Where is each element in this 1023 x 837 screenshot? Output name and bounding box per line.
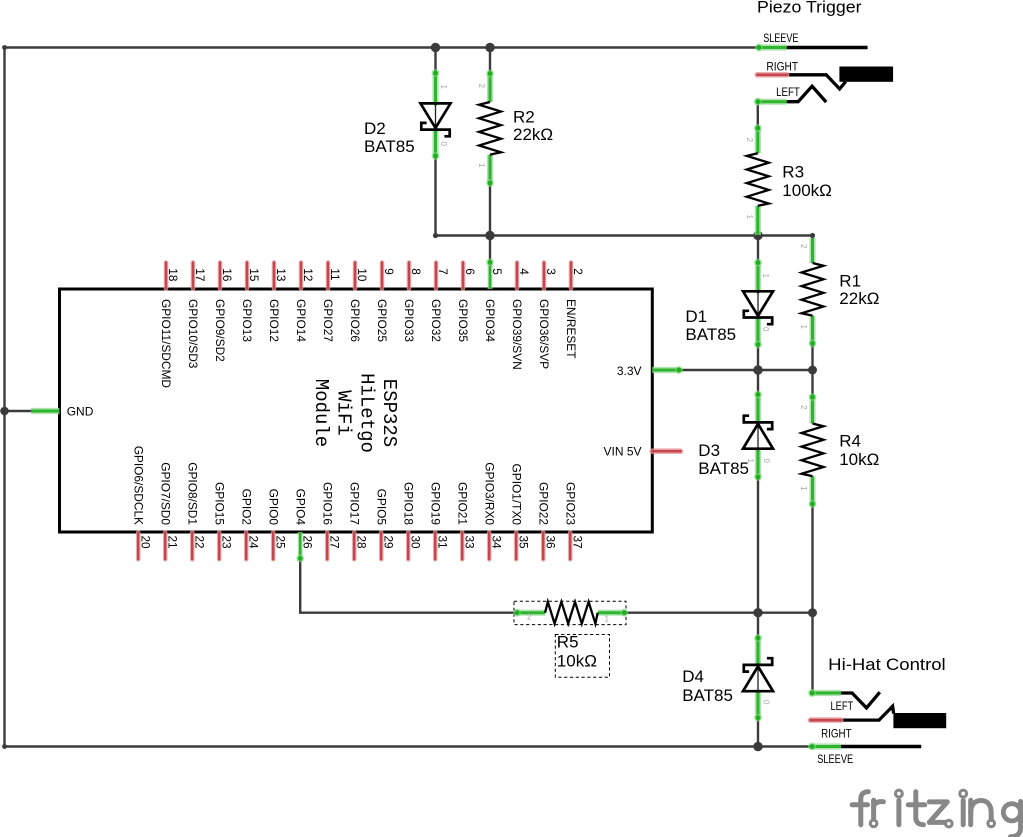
pin U1-37 GPIO23 stub [568,533,573,560]
pin R3 1 [755,206,761,235]
pin R5 1 [598,609,628,617]
svg-text:Piezo Trigger: Piezo Trigger [757,0,862,16]
svg-text:R2: R2 [513,107,535,126]
svg-text:34: 34 [489,536,503,550]
wire D3 top [757,370,759,396]
pin D2 cathode (0) [432,128,440,160]
jack J1 sleeve lead [787,46,868,49]
pin D1 anode (1) [754,259,762,294]
svg-text:23: 23 [219,536,233,550]
pin D3 anode [754,448,762,481]
svg-text:GPIO6/SDCLK: GPIO6/SDCLK [131,446,145,525]
svg-text:D4: D4 [682,667,704,686]
pin U1 3.3V stub [652,366,683,374]
svg-text:GPIO0: GPIO0 [266,489,280,526]
pin U1 VIN5V stub [652,448,680,454]
svg-text:2: 2 [527,613,532,622]
svg-text:GPIO8/SD1: GPIO8/SD1 [185,462,199,525]
wire D4 top [757,613,759,638]
wire R4 bottom [811,504,813,614]
svg-text:30: 30 [408,536,422,550]
wire left rail [3,46,5,747]
svg-text:0: 0 [439,142,448,147]
pin D4 anode [754,689,762,721]
svg-text:BAT85: BAT85 [682,686,733,705]
svg-text:GPIO13: GPIO13 [240,299,254,342]
jack J2 ring contact [841,706,894,720]
jack J2 sleeve lead [841,745,922,748]
svg-text:27: 27 [327,536,341,549]
node R3-D1/middle rail [753,231,762,240]
svg-text:GPIO7/SD0: GPIO7/SD0 [158,462,172,525]
svg-text:D2: D2 [364,119,386,138]
pin R1 1 [809,316,817,348]
pin U1-35 GPIO1/TX0 stub [514,533,519,560]
pin R5 2 [513,609,545,617]
diode D3 BAT85 symbol [743,416,773,450]
svg-text:0: 0 [762,700,771,705]
resistor R2 zigzag [479,102,501,155]
pin R4 2 [809,393,817,423]
node D4/bottom rail [753,742,762,751]
svg-text:GPIO39/SVN: GPIO39/SVN [510,299,524,370]
svg-text:1: 1 [799,486,808,491]
resistor R3 zigzag [747,153,769,206]
diode D4 BAT85 symbol [743,658,773,692]
svg-text:D1: D1 [685,307,707,326]
node R2-GPIO34/middle rail [485,231,494,240]
svg-text:SLEEVE: SLEEVE [817,754,853,766]
svg-text:2: 2 [477,84,486,89]
jack J2 body [893,713,946,728]
svg-text:1: 1 [746,459,755,464]
svg-text:0: 0 [762,459,771,464]
wire D2 top [434,48,436,76]
pin J1 RIGHT [757,72,786,78]
wire D1 bottom [757,344,759,371]
wire GPIO34 to middle rail [489,236,491,264]
pin U1-13 GPIO12 stub [272,263,277,289]
svg-text:ESP32S: ESP32S [378,379,400,447]
wire R5 to junctions [625,612,814,614]
svg-text:GPIO22: GPIO22 [536,482,550,525]
svg-text:LEFT: LEFT [831,701,854,713]
svg-text:Hi-Hat Control: Hi-Hat Control [828,655,946,674]
svg-text:GPIO14: GPIO14 [294,299,308,342]
svg-text:BAT85: BAT85 [698,459,749,478]
diode D2 BAT85 symbol [421,103,451,136]
svg-text:21: 21 [165,536,179,549]
pin U1-12 GPIO14 stub [299,263,304,289]
svg-text:GPIO27: GPIO27 [321,299,335,342]
resistor R1 zigzag [802,263,824,316]
svg-text:2: 2 [745,138,754,143]
svg-text:GPIO36/SVP: GPIO36/SVP [537,299,551,369]
svg-text:7: 7 [436,268,450,275]
svg-text:2: 2 [799,244,808,249]
svg-text:BAT85: BAT85 [364,137,415,156]
resistor R5 zigzag [545,602,598,624]
wire D2 bottom [434,155,436,237]
svg-text:10kΩ: 10kΩ [839,450,879,469]
svg-text:15: 15 [247,268,261,282]
pin U1-31 GPIO19 stub [433,533,438,560]
selection box R5 label [555,635,609,678]
wire D4 bottom [757,717,759,747]
wire GND stub [5,410,32,412]
svg-text:100kΩ: 100kΩ [782,181,832,200]
pin U1-15 GPIO13 stub [245,263,250,289]
svg-text:GPIO16: GPIO16 [320,482,334,525]
svg-text:20: 20 [138,536,152,550]
node D3-D4/R5 rail [753,608,762,617]
svg-text:17: 17 [193,268,207,281]
wire D1 top [757,236,759,264]
svg-text:1: 1 [477,163,486,168]
svg-text:GPIO15: GPIO15 [212,482,226,525]
pin U1-10 GPIO26 stub [353,263,358,289]
svg-text:GPIO25: GPIO25 [375,299,389,342]
svg-text:22: 22 [192,536,206,549]
pin J2 RIGHT [811,717,841,723]
wire middle rail [435,234,814,236]
svg-text:2: 2 [799,405,808,410]
svg-text:26: 26 [300,536,314,550]
svg-text:2: 2 [571,268,585,275]
jack J1 tip contact [787,86,827,102]
svg-text:GPIO32: GPIO32 [429,299,443,342]
svg-text:6: 6 [463,268,477,275]
svg-text:BAT85: BAT85 [685,325,736,344]
svg-text:GPIO3/RX0: GPIO3/RX0 [482,462,496,525]
pin R4 1 [809,476,817,508]
pin J2 LEFT [808,689,841,697]
wire R2 top [489,48,491,76]
svg-text:28: 28 [354,536,368,550]
svg-text:RIGHT: RIGHT [821,728,852,740]
svg-text:GPIO11/SDCMD: GPIO11/SDCMD [159,299,173,388]
svg-text:GPIO21: GPIO21 [455,482,469,525]
pin U1-17 GPIO10/SD3 stub [191,263,196,289]
svg-text:1: 1 [605,615,610,624]
wire bottom rail [5,745,812,747]
svg-text:HiLetgo: HiLetgo [355,373,377,453]
svg-text:GPIO12: GPIO12 [267,299,281,342]
pin U1-3 GPIO36/SVP stub [542,263,547,289]
pin U1-22 GPIO8/SD1 stub [190,533,195,560]
wire GPIO4 to R5 [300,558,518,613]
svg-text:GPIO5: GPIO5 [374,489,388,526]
svg-text:37: 37 [570,536,584,549]
svg-text:18: 18 [166,268,180,282]
svg-text:WiFi: WiFi [333,390,355,436]
svg-text:GPIO9/SD2: GPIO9/SD2 [213,299,227,362]
svg-text:R4: R4 [839,432,861,451]
wire Piezo LEFT to R3 [757,102,759,129]
svg-text:9: 9 [382,268,396,275]
svg-text:3: 3 [544,268,558,275]
node R4-HiHat/R5 rail [808,608,817,617]
resistor R4 zigzag [802,424,824,477]
svg-text:3.3V: 3.3V [617,364,642,378]
svg-text:25: 25 [273,536,287,550]
svg-text:8: 8 [409,268,423,275]
node R2/top rail [485,43,494,52]
svg-text:31: 31 [435,536,449,549]
pin R3 2 [754,124,762,153]
jack J1 body [839,67,893,82]
svg-text:1: 1 [761,274,770,279]
pin U1-18 GPIO11/SDCMD stub [164,263,169,289]
svg-text:1: 1 [799,325,808,330]
fritzing logo [852,790,1020,837]
node GND junction [0,407,9,416]
svg-text:Module: Module [310,379,332,447]
svg-text:29: 29 [381,536,395,549]
svg-text:0: 0 [761,327,770,332]
wire D3 bottom [757,477,759,614]
pin U1-21 GPIO7/SD0 stub [163,533,168,560]
svg-text:GPIO23: GPIO23 [563,482,577,525]
pin D4 cathode [754,634,762,666]
wire top rail [5,46,761,48]
node R1-R4/3.3V rail [808,366,817,375]
svg-text:1: 1 [439,85,448,90]
pin U1-27 GPIO16 stub [325,533,330,560]
svg-text:SLEEVE: SLEEVE [763,33,798,45]
pin U1-9 GPIO25 stub [380,263,385,289]
svg-text:GPIO1/TX0: GPIO1/TX0 [509,464,523,526]
svg-text:11: 11 [328,268,342,280]
svg-text:GPIO2: GPIO2 [239,489,253,526]
ESP32 module body U1 [60,289,653,532]
pin U1-26 GPIO4 stub [296,532,304,562]
pin J1 SLEEVE [755,44,787,52]
svg-text:GPIO10/SD3: GPIO10/SD3 [186,299,200,369]
jack J2 tip contact [841,692,880,708]
pin U1-11 GPIO27 stub [326,263,331,289]
svg-text:R1: R1 [839,271,861,290]
svg-text:GPIO19: GPIO19 [428,482,442,525]
pin U1-20 GPIO6/SDCLK stub [136,533,141,560]
pin U1-34 GPIO3/RX0 stub [487,533,492,560]
pin U1-30 GPIO18 stub [406,533,411,560]
svg-text:24: 24 [246,536,260,550]
node D2/top rail [431,43,440,52]
pin U1-23 GPIO15 stub [217,533,222,560]
svg-text:35: 35 [516,536,530,550]
svg-text:10: 10 [355,268,369,282]
svg-text:LEFT: LEFT [776,87,800,99]
svg-text:22kΩ: 22kΩ [839,289,879,308]
pin R1 2 [809,238,815,263]
pin U1 GND stub [31,408,60,414]
svg-text:GPIO17: GPIO17 [347,482,361,525]
pin U1-24 GPIO2 stub [244,533,249,560]
pin U1-7 GPIO32 stub [434,263,439,289]
svg-text:33: 33 [462,536,476,550]
pin U1-25 GPIO0 stub [271,533,276,560]
selection box R5 [514,601,626,624]
pin U1-28 GPIO17 stub [352,533,357,560]
pin D3 cathode [754,391,762,424]
svg-text:4: 4 [517,268,531,275]
pin J2 SLEEVE [808,743,841,751]
svg-text:GND: GND [67,404,94,418]
svg-text:10kΩ: 10kΩ [557,652,597,671]
svg-text:GPIO18: GPIO18 [401,482,415,525]
svg-text:GPIO4: GPIO4 [293,489,307,526]
svg-text:36: 36 [543,536,557,550]
wire R4 top [811,370,813,397]
node bottom-left corner [2,744,7,749]
pin D1 cathode (0) [754,316,762,348]
pin J1 LEFT [754,98,787,106]
svg-text:GPIO34: GPIO34 [483,299,497,342]
svg-text:22kΩ: 22kΩ [513,125,553,144]
pin R2 1 [486,155,494,187]
svg-text:R5: R5 [557,633,579,652]
svg-text:VIN 5V: VIN 5V [603,445,641,459]
pin U1-5 GPIO34 stub [486,258,494,289]
svg-text:D3: D3 [698,441,720,460]
wire R1 bottom [811,344,813,372]
pin U1-6 GPIO35 stub [461,263,466,289]
pin R2 2 [486,70,494,102]
node D2/middle rail [433,233,438,238]
svg-text:R3: R3 [782,163,804,182]
wire junction to Hi-Hat LEFT [811,613,813,694]
svg-text:16: 16 [220,268,234,282]
svg-text:RIGHT: RIGHT [766,61,798,73]
pin U1-2 EN/RESET stub [569,263,574,289]
pin U1-16 GPIO9/SD2 stub [218,263,223,289]
pin U1-36 GPIO22 stub [541,533,546,560]
wire R2 bottom [489,183,491,236]
wire 3.3V rail [680,369,813,371]
svg-text:EN/RESET: EN/RESET [564,299,578,358]
pin U1-29 GPIO5 stub [379,533,384,560]
svg-text:1: 1 [745,215,754,220]
node top-left corner [2,45,7,50]
pin U1-33 GPIO21 stub [460,533,465,560]
jack J1 ring contact [787,75,846,89]
svg-text:GPIO33: GPIO33 [402,299,416,342]
node R1/middle rail [810,233,815,238]
svg-text:5: 5 [490,268,504,275]
svg-text:12: 12 [301,268,315,281]
pin U1-8 GPIO33 stub [407,263,412,289]
svg-text:13: 13 [274,268,288,282]
svg-text:GPIO35: GPIO35 [456,299,470,342]
diode D1 BAT85 symbol [743,291,773,324]
pin D2 anode (1) [432,69,440,106]
pin U1-4 GPIO39/SVN stub [515,263,520,289]
svg-text:GPIO26: GPIO26 [348,299,362,342]
node D1-D3/3.3V rail [753,365,762,374]
